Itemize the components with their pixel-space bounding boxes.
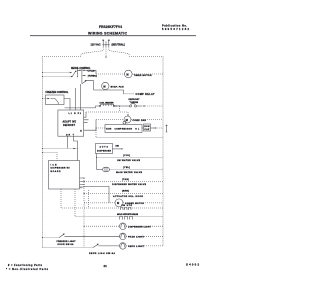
auto dispenser box [96,144,113,154]
wire rail to control (upper) [43,72,71,74]
svg-text:L1 N F1: L1 N F1 [69,113,82,115]
switch arm [72,71,76,77]
svg-text:DEFROST: DEFROST [63,125,76,127]
ice maker connector row [61,189,163,208]
svg-text:ACTUATOR SOL. DOOR: ACTUATOR SOL. DOOR [113,195,143,198]
wire neutral lead to right rail [109,47,163,57]
svg-text:Publication No.: Publication No. [162,23,187,27]
heater feed from bus [96,106,100,108]
svg-text:(BRN): (BRN) [122,190,129,192]
contact CYCLE [83,69,86,71]
svg-text:DISPENSER LIGHT: DISPENSER LIGHT [128,226,152,228]
long vertical to lights [83,178,86,248]
BRN row: actuator sol door [84,193,163,195]
relay circle on box top [123,121,126,124]
svg-text:(YEL): (YEL) [123,167,130,169]
svg-text:(TURBO): (TURBO) [88,75,97,77]
svg-text:DISPENSER W/: DISPENSER W/ [51,168,70,170]
plug prong neutral [108,39,110,41]
compressor to run cap [142,127,144,129]
svg-text:MOLD HTR WTR VALVE: MOLD HTR WTR VALVE [117,213,139,216]
plug prong L1 [102,39,104,41]
svg-text:AUTO: AUTO [100,145,109,148]
contact TURBO [83,75,86,77]
mold heater row [75,189,163,217]
ground stub wire [105,47,107,58]
wire timer motor to rail [132,73,163,75]
stub below junction [118,106,120,112]
svg-text:* = Non-Illustrated Parts: * = Non-Illustrated Parts [6,268,49,271]
box bottom pins [67,136,77,160]
svg-text:21: 21 [104,264,108,268]
svg-text:CAP: CAP [144,128,150,131]
compressor box [105,125,142,133]
bottom wire with refr door switch [43,247,94,249]
section divider wire [96,130,163,138]
left rail L1 [42,56,44,247]
VIO row: I/M water valve [96,154,98,170]
svg-text:ADAPT IVE: ADAPT IVE [63,121,77,124]
defrost heater coil [99,105,101,107]
wire freezer control out [64,99,70,108]
svg-text:5995371282: 5995371282 [162,27,190,31]
svg-text:D: D [80,130,82,132]
vertical feeds to defrost bus [75,88,77,108]
svg-text:FRS26KF7FV4: FRS26KF7FV4 [99,25,122,29]
evap fan row wire [94,90,124,94]
svg-text:DISPENSER: DISPENSER [97,150,112,152]
svg-text:DEFROST: DEFROST [129,99,141,101]
heater wire to thermostat [115,105,130,107]
cond fan wires [96,119,124,121]
wire to timer motor [86,70,96,74]
svg-text:FREEZER CONTROL: FREEZER CONTROL [46,91,70,94]
switch bar 2 [81,69,83,84]
svg-text:COMPRESSOR: COMPRESSOR [115,129,133,131]
dispenser arrow out [113,148,122,150]
interface board box [49,161,80,190]
dashed DR wire from rail [43,148,78,150]
svg-text:115 VAC: 115 VAC [91,44,101,47]
freezer light [120,233,127,240]
wire L1 lead to left rail [43,47,104,57]
wire rail to interface board [43,153,58,161]
svg-text:M: M [126,118,128,122]
svg-text:TIMER MOTOR: TIMER MOTOR [134,75,152,77]
wire rail to control (lower) [43,76,72,78]
svg-text:(TAN): (TAN) [122,178,129,181]
svg-text:COIL HEATER: COIL HEATER [100,101,114,104]
svg-text:(VIO): (VIO) [123,155,130,157]
evap fan motor [102,82,109,89]
contact lower [82,81,86,84]
cond fan motor [124,116,131,123]
interface bottom corner feed [80,186,85,188]
wire pin D [84,120,96,131]
interface board right pins [80,178,85,185]
freezer switch [51,99,59,105]
svg-text:WIRING SCHEMATIC: WIRING SCHEMATIC [88,31,127,35]
svg-text:RUN: RUN [144,126,150,128]
dispenser light [120,223,127,230]
wire pin to cond fan hook [86,112,128,116]
svg-text:MAIN WATER VALVE: MAIN WATER VALVE [116,171,143,174]
timer motor [125,70,133,78]
box right pins [84,112,89,122]
svg-text:CYCLE: CYCLE [88,70,96,72]
freezer door switch [43,237,60,239]
TAN row: dispenser water valve [84,181,163,183]
run capacitor box [144,124,151,131]
wire rail to freezer control [43,98,49,100]
defrost bus [65,107,96,109]
svg-text:BOARD: BOARD [51,170,61,173]
wire interface to ice maker row [88,190,90,208]
svg-text:M: M [117,201,119,205]
wire contact to evap fan row [87,81,94,90]
svg-text:I/M WATER VALVE: I/M WATER VALVE [117,159,141,162]
svg-text:(NEUTRAL): (NEUTRAL) [112,44,126,47]
svg-text:REFR LIGHT: REFR LIGHT [128,246,145,248]
comp relay dashed wire [124,93,135,95]
svg-text:# = Functioning Parts: # = Functioning Parts [8,264,43,267]
svg-text:RUN: RUN [106,129,112,131]
arrow to bar 2 [78,69,81,71]
compressor feed [96,127,105,129]
plug body bar [102,44,109,46]
thermostat to rail [137,105,143,107]
box pins from bus [70,108,81,110]
svg-text:M: M [103,84,105,88]
adaptive defrost box [58,110,84,136]
rail junction dots [42,72,43,73]
svg-text:REFR LIGH SW-5A: REFR LIGH SW-5A [89,252,115,255]
svg-text:DISPENSER WATER VALVE: DISPENSER WATER VALVE [112,183,147,186]
svg-text:M: M [126,72,128,76]
svg-text:COMP RELAY: COMP RELAY [136,93,155,96]
YEL row: main water valve [97,169,103,171]
svg-text:S4002: S4002 [186,263,199,267]
svg-text:DOOR SW-5A: DOOR SW-5A [58,243,75,246]
run cap to rail [151,127,155,129]
svg-text:DIS: DIS [116,145,120,147]
svg-text:OL: OL [135,129,140,131]
svg-text:FREEZER LIGHT: FREEZER LIGHT [57,241,77,243]
switch bar 1 [76,70,78,78]
svg-text:EVAP. FAN: EVAP. FAN [111,86,124,89]
svg-text:I/M HTR: I/M HTR [121,205,133,207]
wire to auger motor [84,187,109,203]
refr light [120,243,127,250]
plug prong ground [105,41,107,47]
header rule [30,35,196,37]
right rail neutral [162,56,164,246]
svg-text:FRZR LIGHT: FRZR LIGHT [128,237,145,239]
auger motor [115,199,123,207]
freezer control box [46,95,65,105]
svg-text:ICE: ICE [51,164,58,166]
GRN ground stub [166,125,168,132]
